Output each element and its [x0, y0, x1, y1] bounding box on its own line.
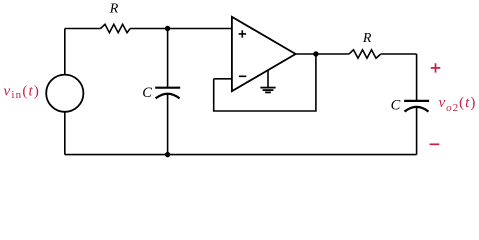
svg-text:C: C	[142, 85, 152, 101]
source V1 circle	[46, 75, 83, 112]
label output minus polarity	[430, 143, 440, 145]
op-amp U1 minus input marker	[239, 75, 246, 77]
wire op-amp output	[296, 53, 349, 55]
node A junction dot	[165, 26, 170, 31]
capacitor C2	[404, 101, 429, 112]
wire bottom rail	[65, 154, 417, 156]
op-amp U1 plus input marker	[239, 30, 246, 37]
wire to op-amp plus input	[168, 28, 232, 30]
node B output junction dot	[313, 51, 318, 56]
node C bottom junction dot	[165, 152, 170, 157]
wire left branch upper	[64, 29, 66, 75]
wire left branch lower	[64, 112, 66, 155]
ground	[260, 70, 275, 93]
capacitor C1	[155, 88, 180, 99]
resistor R1	[101, 24, 131, 32]
svg-text:R: R	[109, 1, 119, 16]
wire capacitor C1 upper lead	[167, 29, 169, 88]
resistor R2	[349, 50, 381, 58]
wire top rail middle segment	[130, 28, 167, 30]
wire op-amp minus input lead	[214, 78, 232, 80]
svg-text:C: C	[391, 98, 401, 114]
wire feedback loop	[214, 54, 316, 111]
wire output top right	[381, 53, 417, 55]
wire capacitor C2 lower lead	[416, 107, 418, 155]
svg-text:R: R	[362, 31, 372, 46]
op-amp U1 triangle	[232, 17, 296, 91]
svg-text:vin(t): vin(t)	[4, 83, 41, 101]
wire top rail left segment	[65, 28, 101, 30]
label output plus polarity	[431, 63, 441, 72]
wire capacitor C2 upper lead	[416, 54, 418, 100]
wire capacitor C1 lower lead	[167, 94, 169, 155]
